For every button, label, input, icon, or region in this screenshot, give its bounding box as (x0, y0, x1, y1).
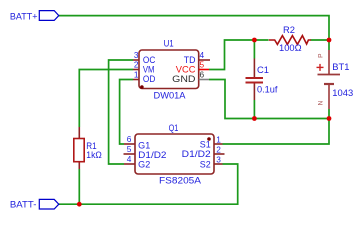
svg-text:GND: GND (172, 74, 196, 84)
svg-text:1kΩ: 1kΩ (86, 150, 102, 160)
wire C1 top (253, 40, 255, 59)
battery BT1 (317, 50, 354, 109)
svg-text:5: 5 (127, 144, 132, 154)
wire OC to G2 (109, 60, 133, 164)
wire R1 top to VM (79, 70, 133, 128)
junction dot VCC/C1 (252, 38, 257, 43)
svg-text:C1: C1 (257, 65, 269, 75)
wire GND pin to bottom rail (209, 80, 329, 119)
svg-text:6: 6 (127, 134, 132, 144)
U1 pin numbers (134, 50, 205, 80)
resistor R2 (269, 25, 311, 53)
svg-text:P: P (318, 54, 325, 58)
battery plate - (324, 83, 334, 85)
svg-text:D1/D2: D1/D2 (138, 150, 166, 160)
U1 pin names (143, 55, 196, 84)
Q1 pin names (138, 140, 211, 170)
port BATT- (10, 199, 59, 209)
junction dot battery N/rail (327, 116, 332, 121)
svg-text:6: 6 (200, 69, 205, 79)
svg-text:3: 3 (216, 155, 221, 165)
op-amp U1 DW01A body (133, 50, 210, 89)
wire S2 to BATT- (59, 164, 238, 204)
Q1 pin numbers (127, 134, 222, 165)
svg-text:VCC: VCC (176, 65, 196, 75)
svg-text:3: 3 (134, 50, 139, 60)
wire R2 right to junction (311, 39, 330, 41)
junction dot C1/bottom rail (252, 116, 257, 121)
svg-text:1: 1 (134, 70, 139, 80)
svg-text:5: 5 (200, 59, 205, 69)
wire OD to G1 (120, 80, 133, 145)
svg-text:BATT+: BATT+ (10, 12, 38, 22)
svg-text:4: 4 (200, 50, 205, 60)
svg-text:VM: VM (143, 65, 155, 75)
svg-text:S1: S1 (200, 140, 211, 150)
battery plus sign (317, 66, 324, 68)
svg-text:OD: OD (143, 74, 156, 84)
wire S1 to battery junction (223, 119, 330, 145)
svg-text:BATT-: BATT- (10, 200, 37, 210)
svg-text:FS8205A: FS8205A (159, 176, 202, 186)
svg-text:D1/D2: D1/D2 (182, 149, 211, 159)
svg-text:4: 4 (127, 154, 132, 164)
svg-text:1043: 1043 (332, 88, 353, 98)
svg-text:DW01A: DW01A (154, 90, 187, 100)
wire BATT+ top rail (59, 16, 329, 40)
transistor Q1 FS8205A body (124, 134, 225, 174)
svg-text:100Ω: 100Ω (279, 43, 302, 53)
battery plate + (318, 74, 341, 76)
svg-text:BT1: BT1 (332, 62, 349, 72)
svg-text:OC: OC (143, 55, 156, 65)
resistor R1 (74, 127, 102, 169)
svg-text:U1: U1 (164, 38, 174, 48)
svg-text:2: 2 (216, 145, 221, 155)
capacitor C1 (246, 59, 278, 101)
svg-text:Q1: Q1 (169, 123, 179, 133)
svg-text:2: 2 (134, 60, 139, 70)
svg-text:G2: G2 (138, 159, 150, 169)
wire C1 bottom (253, 100, 255, 119)
junction dot R2/battery P (327, 38, 332, 43)
svg-text:TD: TD (184, 55, 196, 65)
svg-text:0.1uf: 0.1uf (257, 85, 278, 95)
junction dot R1/BATT- (77, 202, 82, 207)
svg-text:1: 1 (216, 135, 221, 145)
wire battery top green (328, 40, 330, 50)
wire VCC rail y40 (209, 40, 269, 70)
wire R1 bottom (78, 169, 80, 204)
svg-text:N: N (318, 100, 325, 105)
svg-text:R2: R2 (283, 25, 295, 35)
port BATT+ (10, 11, 59, 22)
svg-text:G1: G1 (138, 140, 150, 150)
svg-text:S2: S2 (200, 159, 211, 169)
wire battery bottom green (328, 109, 330, 119)
